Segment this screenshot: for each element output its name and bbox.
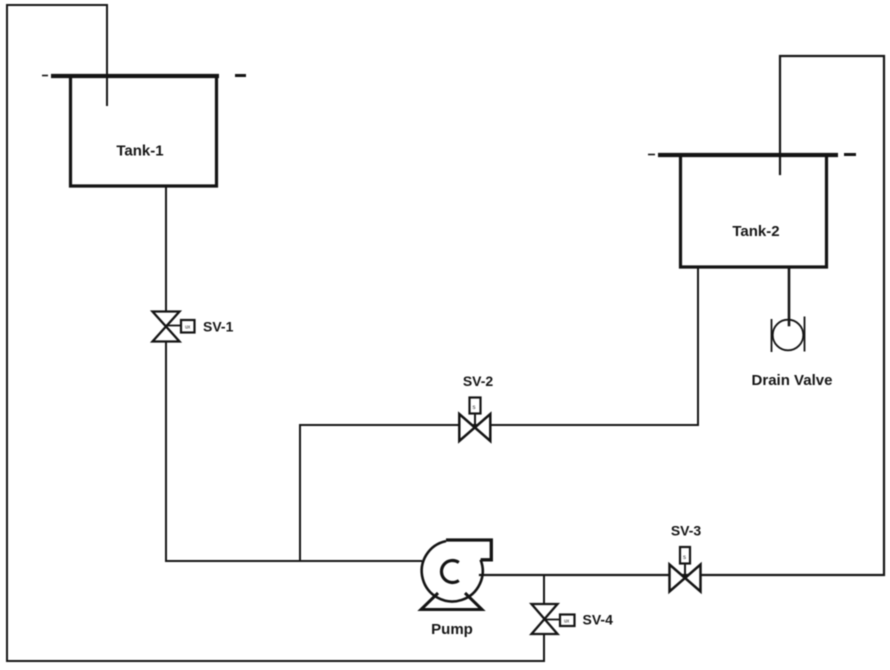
svg-text:SV-3: SV-3 (671, 523, 702, 539)
svg-text:s: s (473, 405, 476, 411)
svg-text:Drain Valve: Drain Valve (752, 372, 833, 389)
svg-text:ux: ux (185, 325, 191, 331)
svg-text:SV-4: SV-4 (583, 612, 614, 628)
svg-text:s: s (683, 555, 686, 561)
svg-text:SV-1: SV-1 (203, 319, 234, 335)
svg-text:Tank-1: Tank-1 (116, 143, 163, 160)
svg-text:ux: ux (564, 619, 570, 625)
svg-text:SV-2: SV-2 (463, 373, 494, 389)
svg-text:Pump: Pump (431, 621, 473, 638)
svg-text:Tank-2: Tank-2 (732, 223, 779, 240)
